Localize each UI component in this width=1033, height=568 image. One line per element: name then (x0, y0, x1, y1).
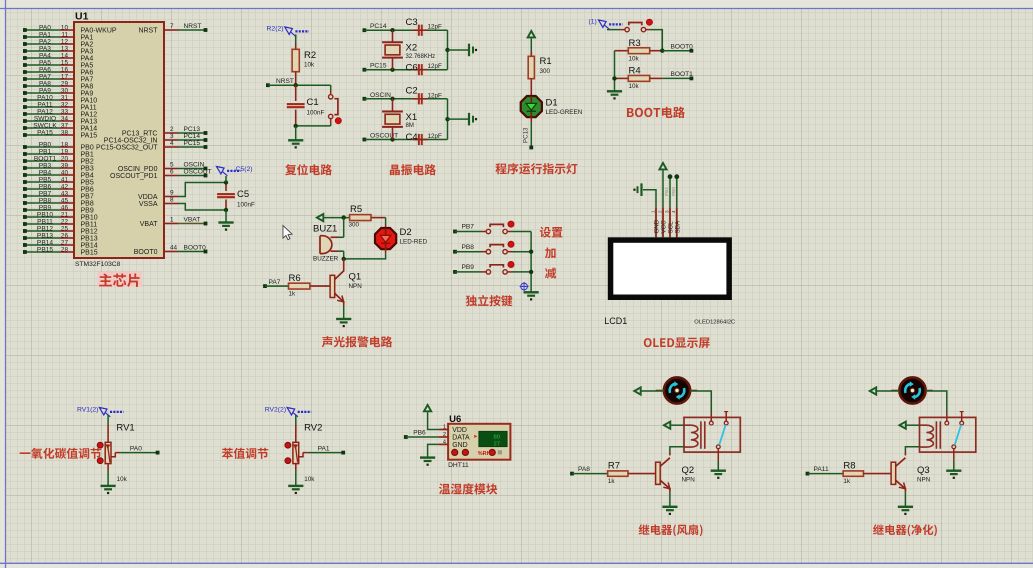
resistor R4 10k (615, 66, 663, 91)
svg-text:PC13: PC13 (184, 126, 201, 133)
svg-text:39: 39 (61, 163, 69, 170)
mouse cursor (283, 226, 292, 240)
svg-text:33: 33 (61, 109, 69, 116)
resistor R5 300 (349, 204, 386, 229)
wire Q1 emitter to ground (343, 301, 345, 319)
wire power to fan (877, 390, 899, 392)
svg-text:VSSA: VSSA (139, 201, 158, 208)
svg-text:PB15: PB15 (81, 249, 98, 256)
svg-text:32.768KHz: 32.768KHz (406, 54, 436, 60)
svg-text:4: 4 (443, 439, 446, 445)
svg-text:PB5: PB5 (81, 179, 94, 186)
svg-text:LED-RED: LED-RED (400, 239, 428, 246)
svg-text:PA9: PA9 (81, 90, 94, 97)
svg-text:10: 10 (61, 25, 69, 32)
svg-text:PC14: PC14 (370, 23, 387, 30)
svg-text:26: 26 (61, 233, 69, 240)
svg-text:PA2: PA2 (81, 41, 94, 48)
probe marker C5(2) (217, 166, 253, 176)
resistor R2 10k (292, 35, 316, 86)
resistor R3 10k (615, 38, 663, 63)
svg-text:PA5: PA5 (39, 60, 51, 67)
U1 pin PA5 (15) with wire and net label PA5 (23, 60, 93, 70)
svg-text:PB0: PB0 (39, 142, 52, 149)
svg-text:PA0: PA0 (130, 445, 142, 452)
svg-text:LCD1: LCD1 (604, 316, 627, 326)
svg-text:C6: C6 (406, 62, 418, 73)
probe marker R2(2) at top of reset divider (267, 26, 310, 37)
wire VDDA to C5 top node (178, 183, 226, 197)
svg-text:R1: R1 (540, 56, 552, 67)
svg-text:20: 20 (61, 156, 69, 163)
svg-text:BOOT0: BOOT0 (134, 249, 158, 256)
svg-text:PB6: PB6 (39, 184, 52, 191)
svg-text:12pF: 12pF (428, 63, 443, 70)
svg-text:SWDIO: SWDIO (34, 116, 56, 123)
svg-text:PC13_RTC: PC13_RTC (122, 130, 158, 137)
wire left rail of boot divider (612, 51, 616, 92)
U1 pin PA14 (37) with wire and net label SWCLK (23, 123, 97, 133)
U1 pin PA2 (12) with wire and net label PA2 (23, 39, 93, 49)
svg-text:PB10: PB10 (37, 212, 53, 219)
wire button bottom to C1 bottom (294, 124, 331, 128)
U1 pin PB7 (43) with wire and net label PB7 (23, 191, 94, 201)
svg-text:30: 30 (61, 88, 69, 95)
svg-text:OSCIN_PD0: OSCIN_PD0 (118, 166, 158, 173)
svg-text:28: 28 (61, 247, 69, 254)
svg-text:PA7: PA7 (81, 76, 94, 83)
ground of relay contact (711, 471, 726, 479)
wire Q2 emitter to ground (669, 488, 671, 507)
sheet margin strips (0, 0, 1033, 8)
svg-text:LED-GREEN: LED-GREEN (546, 109, 583, 116)
U1 pin PA6 (16) with wire and net label PA6 (23, 67, 93, 77)
svg-text:NRST: NRST (184, 23, 202, 30)
svg-text:46: 46 (61, 205, 69, 212)
capacitor C5 100nF (217, 180, 255, 212)
svg-text:PA7: PA7 (269, 279, 281, 286)
svg-text:PA7: PA7 (39, 74, 51, 81)
svg-text:DHT11: DHT11 (448, 462, 469, 469)
wire net OSCOUT to crystal X1 bottom (363, 133, 448, 142)
labels LCD1 OLED12864I2C (604, 316, 735, 326)
svg-text:PB13: PB13 (37, 233, 53, 240)
svg-text:1k: 1k (608, 478, 616, 485)
svg-text:29: 29 (61, 81, 69, 88)
label 苯值调节 (222, 448, 268, 459)
svg-text:PC14: PC14 (184, 133, 201, 140)
wire R5 to D2 anode (385, 218, 387, 230)
svg-text:GND: GND (452, 442, 467, 449)
wire RV2 wiper to net PA1 (303, 445, 345, 454)
svg-text:BOOT1: BOOT1 (34, 156, 57, 163)
svg-text:PC15: PC15 (370, 63, 387, 70)
wire BOOT1 net label (662, 71, 693, 80)
U1 pin PA13 (34) with wire and net label SWDIO (23, 116, 97, 126)
svg-text:PB7: PB7 (39, 191, 52, 198)
svg-text:2: 2 (443, 432, 446, 438)
svg-text:PB11: PB11 (37, 219, 53, 226)
svg-text:5: 5 (170, 162, 174, 169)
svg-text:10k: 10k (117, 476, 128, 483)
U1 pin PC13_RTC (2) net PC13 (122, 126, 208, 137)
wire net PC14 to crystal X2 top (363, 23, 448, 32)
U1 pin PA7 (17) with wire and net label PA7 (23, 74, 93, 84)
svg-text:40: 40 (61, 170, 69, 177)
svg-text:BUZ1: BUZ1 (313, 224, 337, 235)
wire to ground of reset circuit (295, 126, 297, 140)
wire power to relay coil (671, 424, 684, 426)
crystal X2 32.768KHz (382, 30, 435, 69)
buzzer BUZ1 (313, 224, 344, 263)
wire marker to R2 top (295, 35, 297, 39)
svg-text:PA10: PA10 (81, 97, 98, 104)
svg-text:PB6: PB6 (413, 430, 426, 437)
power symbol feeding relay coil (899, 422, 905, 429)
capacitor C6 12pF (406, 62, 443, 75)
label 独立按键 (independent keys) (466, 295, 513, 306)
svg-text:PA1: PA1 (39, 32, 51, 39)
power symbol feeding fan of 继电器(净化) (870, 387, 876, 394)
relay of 继电器(风扇) (684, 412, 740, 453)
svg-text:BOOT0: BOOT0 (184, 245, 207, 252)
U1 pin PB10 (21) with wire and net label PB10 (23, 212, 98, 222)
svg-text:12pF: 12pF (428, 92, 443, 99)
svg-text:12: 12 (61, 39, 69, 46)
svg-text:18: 18 (61, 142, 69, 149)
label 加 (plus) (545, 247, 556, 258)
U1 pin OSCOUT_PD1 (6) net OSCOUT (110, 169, 212, 180)
resistor R6 1k (263, 273, 330, 298)
wire right rail of X1 (445, 99, 468, 140)
svg-text:13: 13 (61, 46, 69, 53)
svg-text:X1: X1 (406, 112, 418, 123)
ground of Q2 (662, 507, 677, 515)
wire PB6 to U6 DATA pin (404, 430, 439, 439)
svg-text:6: 6 (170, 169, 174, 176)
label 继电器(风扇) (639, 524, 703, 536)
U1 pin PA12 (33) with wire and net label PA12 (23, 109, 97, 119)
wire right rail of keys (529, 232, 533, 293)
svg-text:PA5: PA5 (81, 62, 94, 69)
wire OLED VCC pin (662, 170, 664, 207)
svg-text:PB1: PB1 (39, 149, 52, 156)
pushbutton boot select switch (607, 19, 652, 32)
svg-text:PA15: PA15 (81, 132, 98, 139)
svg-text:Q2: Q2 (682, 465, 695, 476)
svg-text:PB9: PB9 (39, 205, 52, 212)
wire fan to relay switch pin (690, 391, 711, 421)
svg-text:PA13: PA13 (81, 118, 98, 125)
svg-text:PB12: PB12 (81, 228, 98, 235)
svg-text:C3: C3 (406, 17, 418, 28)
label 一氧化碳值调节 (20, 448, 102, 459)
svg-text:PA6: PA6 (39, 67, 51, 74)
svg-text:10k: 10k (304, 62, 315, 69)
U1 pin PB5 (41) with wire and net label PB5 (23, 177, 94, 187)
svg-text:VDD: VDD (452, 427, 467, 434)
svg-text:PA12: PA12 (37, 109, 53, 116)
LCD1 pin 2 VCC (657, 207, 667, 237)
ground below C5 (218, 223, 233, 231)
label 程序运行指示灯 (program running indicator) (495, 163, 577, 174)
U1 pin PB12 (25) with wire and net label PB12 (23, 226, 98, 236)
svg-text:17: 17 (61, 74, 69, 81)
LED D2 LED-RED (375, 227, 428, 249)
U1 pin VSSA (8) (139, 197, 178, 208)
svg-text:38: 38 (61, 130, 69, 137)
svg-text:PA8: PA8 (39, 81, 51, 88)
svg-text:PB4: PB4 (81, 172, 94, 179)
svg-text:37: 37 (61, 123, 69, 130)
svg-text:PB6: PB6 (81, 186, 94, 193)
svg-text:PB14: PB14 (37, 240, 53, 247)
ground (sideways) of X2 group (469, 44, 477, 57)
svg-text:32: 32 (61, 102, 69, 109)
svg-text:1: 1 (170, 217, 174, 224)
pushbutton reset switch (329, 85, 342, 126)
svg-text:PA12: PA12 (81, 111, 98, 118)
svg-text:2: 2 (657, 210, 662, 213)
power symbol of OLED VCC (659, 163, 666, 169)
svg-text:25: 25 (61, 226, 69, 233)
ground of U6 (420, 458, 435, 466)
OLED display LCD1 screen (608, 237, 732, 300)
svg-text:C1: C1 (307, 97, 319, 108)
svg-text:PB7: PB7 (462, 224, 475, 231)
power symbol feeding fan of 继电器(风扇) (634, 387, 640, 394)
label 设置 (set) (540, 227, 563, 238)
svg-text:43: 43 (61, 191, 69, 198)
LCD1 pin 3 SCL (664, 207, 674, 237)
U1 pin PB14 (27) with wire and net label PB14 (23, 240, 98, 250)
svg-text:PB4: PB4 (39, 170, 52, 177)
U1 pin PA15 (38) with wire and net label PA15 (23, 130, 97, 140)
U1 pin NRST (7) net NRST (138, 23, 207, 34)
U1 pin PB0 (18) with wire and net label PB0 (23, 142, 94, 152)
U1 pin PB2 (20) with wire and net label BOOT1 (23, 156, 94, 166)
svg-text:34: 34 (61, 116, 69, 123)
svg-text:8M: 8M (406, 123, 414, 129)
svg-text:PC14-OSC32_IN: PC14-OSC32_IN (104, 137, 158, 144)
U1 pin PA9 (30) with wire and net label PA9 (23, 88, 93, 98)
svg-text:PB1: PB1 (664, 187, 669, 196)
label OLED显示屏 (OLED display) (644, 337, 710, 348)
svg-text:80: 80 (493, 435, 500, 441)
svg-text:BOOT0: BOOT0 (671, 44, 694, 51)
svg-text:PB8: PB8 (81, 200, 94, 207)
wire right rail of X2 (445, 30, 468, 69)
ground of RV2 (288, 486, 303, 494)
label 主芯片 (main chip) (98, 272, 143, 288)
svg-text:R7: R7 (608, 461, 620, 472)
svg-text:RV1: RV1 (116, 423, 134, 434)
svg-text:PB8: PB8 (462, 244, 475, 251)
wire OLED SCL pin (664, 174, 672, 207)
svg-text:(1): (1) (589, 19, 597, 26)
svg-text:300: 300 (349, 222, 360, 229)
U1 pin PB8 (45) with wire and net label PB8 (23, 198, 94, 208)
ground of boot circuit (607, 91, 622, 99)
wire BOOT0 net label (660, 44, 693, 53)
capacitor C3 12pF (406, 17, 443, 36)
svg-text:10k: 10k (304, 476, 315, 483)
probe marker RV2(2) (265, 407, 312, 417)
pushbutton key PB8 (453, 241, 531, 254)
power symbol feeding relay coil (664, 422, 670, 429)
svg-text:R8: R8 (843, 461, 855, 472)
label BOOT电路 (boot circuit) (627, 107, 685, 118)
U1 pin PC14-OSC32_IN (3) net PC14 (104, 133, 208, 144)
ground of relay contact (946, 471, 961, 479)
capacitor C1 100nF (287, 85, 325, 126)
svg-text:PB3: PB3 (81, 165, 94, 172)
svg-text:OLED12864I2C: OLED12864I2C (694, 320, 735, 326)
power symbol of U6 VDD (424, 405, 431, 411)
svg-text:PA3: PA3 (39, 46, 51, 53)
svg-text:C5: C5 (237, 189, 249, 200)
svg-text:C5(2): C5(2) (236, 166, 253, 173)
svg-text:2: 2 (170, 126, 174, 133)
svg-text:10k: 10k (629, 83, 640, 90)
svg-text:PA0-WKUP: PA0-WKUP (81, 27, 117, 34)
wire marker to RV1 top (107, 415, 109, 442)
U1 pin PB4 (40) with wire and net label PB4 (23, 170, 94, 180)
svg-text:PA8: PA8 (578, 466, 590, 473)
svg-text:3: 3 (170, 133, 174, 140)
label 声光报警电路 (sound-light alarm circuit) (322, 336, 392, 347)
svg-text:BOOT1: BOOT1 (671, 71, 694, 78)
capacitor C2 12pF (406, 86, 443, 105)
pushbutton key PB7 (453, 221, 531, 234)
svg-text:PB11: PB11 (81, 221, 98, 228)
wire RV1 bottom to ground (107, 464, 109, 486)
LED D1 LED-GREEN (521, 96, 583, 117)
svg-text:41: 41 (61, 177, 69, 184)
resistor R1 300 (528, 38, 551, 97)
svg-text:PB15: PB15 (37, 247, 53, 254)
U1 pin PB11 (22) with wire and net label PB11 (23, 219, 97, 229)
svg-text:NRST: NRST (276, 78, 294, 85)
svg-text:PB0: PB0 (81, 144, 94, 151)
wire RV2 bottom to ground (295, 464, 297, 486)
svg-text:R6: R6 (289, 273, 301, 284)
svg-text:12pF: 12pF (428, 133, 443, 140)
transistor Q1 NPN (330, 259, 344, 302)
svg-text:PA9: PA9 (39, 88, 51, 95)
svg-text:U1: U1 (75, 11, 89, 23)
U1 pin PA0-WKUP (10) with wire and net label PA0 (23, 25, 117, 35)
svg-text:BUZZER: BUZZER (313, 255, 339, 262)
svg-text:PC13: PC13 (523, 127, 530, 143)
wire OLED SDA pin (671, 174, 679, 207)
LCD1 pin 4 SDA (671, 207, 681, 237)
svg-text:VBAT: VBAT (184, 217, 201, 224)
svg-text:PB2: PB2 (81, 158, 94, 165)
svg-text:VBAT: VBAT (140, 221, 158, 228)
probe marker (1) on boot switch (589, 19, 623, 30)
label 复位电路 (reset circuit) (285, 164, 332, 175)
wire buzzer terminals to rail (342, 218, 346, 261)
svg-text:NRST: NRST (138, 27, 158, 34)
svg-text:12pF: 12pF (428, 24, 443, 31)
wire C5 bottom to ground (225, 210, 227, 223)
svg-text:9: 9 (170, 190, 174, 197)
svg-text:27: 27 (61, 240, 69, 247)
svg-text:SDA: SDA (674, 220, 681, 234)
svg-text:PA2: PA2 (39, 39, 51, 46)
svg-text:PA1: PA1 (318, 445, 330, 452)
svg-text:Q1: Q1 (349, 272, 362, 283)
resistor R8 1k (806, 461, 892, 485)
svg-text:PB14: PB14 (81, 242, 98, 249)
svg-text:PA4: PA4 (39, 53, 51, 60)
wire relay common contact to ground (953, 449, 955, 471)
svg-text:PA11: PA11 (81, 104, 97, 111)
svg-text:PA1: PA1 (81, 34, 94, 41)
U1 pin VBAT (1) net VBAT (140, 217, 208, 228)
svg-text:7: 7 (170, 23, 174, 30)
wire marker to RV2 top (295, 415, 297, 442)
wire boot switch to BOOT0 node (650, 30, 662, 51)
U1 pin PC15-OSC32_OUT (4) net PC15 (96, 140, 207, 151)
wire net PC15 to crystal X2 bottom (363, 63, 448, 72)
svg-text:R3: R3 (629, 38, 641, 49)
svg-text:STM32F103C8: STM32F103C8 (75, 261, 121, 268)
svg-text:OSCIN: OSCIN (370, 92, 391, 99)
svg-text:4: 4 (671, 210, 676, 213)
crystal X1 8M (382, 99, 417, 140)
label 晶振电路 (crystal circuit) (390, 164, 436, 175)
wire fan to relay switch pin (926, 391, 947, 421)
potentiometer RV1 10k (97, 423, 134, 483)
svg-text:8: 8 (170, 197, 174, 204)
svg-text:D2: D2 (400, 227, 412, 238)
svg-text:OSCOUT_PD1: OSCOUT_PD1 (110, 173, 158, 180)
resistor R7 1k (570, 461, 656, 485)
svg-text:PC15-OSC32_OUT: PC15-OSC32_OUT (96, 144, 158, 151)
svg-text:PA4: PA4 (81, 55, 94, 62)
U1 pin PA11 (32) with wire and net label PA11 (23, 102, 97, 112)
wire VDD power to U6 pin 1 (428, 412, 439, 429)
svg-text:SWCLK: SWCLK (33, 123, 57, 130)
svg-text:31: 31 (61, 95, 69, 102)
wire power to fan (642, 390, 664, 392)
svg-text:%RH: %RH (478, 451, 491, 457)
svg-text:PA8: PA8 (81, 83, 94, 90)
ground of alarm circuit (336, 319, 351, 327)
svg-text:19: 19 (61, 149, 69, 156)
svg-text:PB3: PB3 (39, 163, 52, 170)
IC U1 STM32F103C8 microcontroller body (74, 11, 164, 269)
ground (sideways) of OLED GND pin (633, 183, 641, 196)
svg-text:PA11: PA11 (814, 466, 829, 473)
U1 pin PB1 (19) with wire and net label PB1 (23, 149, 94, 159)
U1 pin BOOT0 (44) net BOOT0 (134, 245, 208, 256)
wire relay common contact to ground (717, 449, 719, 471)
svg-text:NPN: NPN (917, 477, 931, 484)
svg-text:42: 42 (61, 184, 69, 191)
svg-text:Q3: Q3 (917, 465, 930, 476)
svg-text:PA3: PA3 (81, 48, 94, 55)
wire Q3 emitter to ground (904, 488, 906, 507)
fan motor of 继电器(净化) (891, 377, 933, 403)
temperature humidity sensor U6 DHT11 (439, 414, 511, 469)
U1 pin PA4 (14) with wire and net label PA4 (23, 53, 93, 63)
U1 pin PA3 (13) with wire and net label PA3 (23, 46, 93, 56)
svg-text:PB7: PB7 (81, 193, 94, 200)
label 继电器(净化) (873, 524, 937, 536)
